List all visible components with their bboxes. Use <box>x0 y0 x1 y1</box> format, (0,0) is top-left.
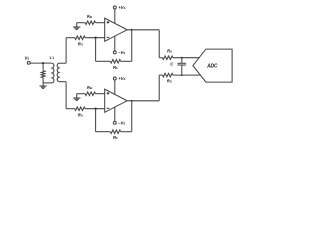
ground input <box>40 86 47 88</box>
node -in U1 <box>94 37 96 39</box>
svg-text:VS: VS <box>25 55 30 60</box>
input terminal VS <box>27 61 30 64</box>
resistor RB U2 <box>85 92 95 96</box>
+Vs stub U1 <box>113 6 116 23</box>
svg-text:RF: RF <box>113 65 118 70</box>
resistor RT shunt <box>41 63 45 86</box>
svg-text:−VS: −VS <box>118 120 125 125</box>
op-amp U1 <box>105 18 127 41</box>
label VS <box>25 55 30 60</box>
capacitor C <box>177 58 186 75</box>
label +Vs U1 <box>118 5 125 10</box>
resistor RG U2 <box>75 107 85 111</box>
wire secondary top to U1 inverting input <box>59 38 75 64</box>
wire RS bottom to ADC <box>173 74 200 76</box>
svg-text:RG: RG <box>78 113 84 118</box>
label ADC <box>206 64 218 70</box>
-Vs stub U1 <box>113 36 116 54</box>
label C <box>170 61 174 66</box>
label RS bottom <box>167 78 172 83</box>
label RB U1 <box>87 14 92 19</box>
label 1:1 <box>49 56 54 60</box>
wire RF to output U2 <box>121 101 132 132</box>
wire secondary bottom to U2 inverting input <box>59 82 75 109</box>
node cap top <box>181 57 183 59</box>
svg-text:RG: RG <box>78 42 84 47</box>
svg-text:+VS: +VS <box>118 76 125 81</box>
svg-text:RB: RB <box>87 14 92 19</box>
svg-text:RS: RS <box>167 78 172 83</box>
label -Vs U1 <box>118 50 125 55</box>
label RF U2 <box>113 135 118 140</box>
svg-text:RB: RB <box>87 85 92 90</box>
wire RB to +in U1 <box>96 22 105 24</box>
wire ground to RB U2 <box>77 93 85 95</box>
op-amp U2 <box>105 89 127 112</box>
ground U2 noninverting <box>73 94 81 101</box>
node output U1 <box>131 29 133 31</box>
node -in U2 <box>94 108 96 110</box>
ground U1 noninverting <box>73 23 81 30</box>
wire U1 output to RS top <box>127 30 162 58</box>
node output U2 <box>131 100 133 102</box>
resistor RS top <box>163 56 173 60</box>
label -Vs U2 <box>118 120 125 125</box>
transformer T1 secondary winding <box>57 63 59 81</box>
node input shunt tap <box>42 62 44 64</box>
label RS top <box>167 48 172 53</box>
resistor RB U1 <box>85 21 95 25</box>
svg-text:C: C <box>170 61 174 66</box>
transformer T1 primary winding <box>52 63 54 83</box>
svg-text:RF: RF <box>113 135 118 140</box>
-Vs stub U2 <box>113 107 116 124</box>
wire RB to +in U2 <box>96 93 105 95</box>
svg-text:+VS: +VS <box>118 5 125 10</box>
resistor RS bottom <box>163 73 173 77</box>
svg-text:RS: RS <box>167 48 172 53</box>
+Vs stub U2 <box>113 77 116 94</box>
wire input to transformer primary <box>30 62 52 64</box>
wire ground to RB U1 <box>77 22 85 24</box>
ADC block <box>193 49 232 82</box>
resistor RG U1 <box>75 36 85 40</box>
label RB U2 <box>87 85 92 90</box>
node cap bottom <box>181 74 183 76</box>
svg-text:1:1: 1:1 <box>49 56 54 60</box>
label +Vs U2 <box>118 76 125 81</box>
wire RS top to ADC <box>173 57 199 59</box>
label RF U1 <box>113 65 118 70</box>
wire RF to output U1 <box>121 30 132 62</box>
wire -in to RF U1 <box>96 38 111 62</box>
resistor RF U1 <box>110 60 120 64</box>
wire -in to RF U2 <box>96 109 111 132</box>
wire RG to -in U1 <box>85 37 105 39</box>
wire RG to -in U2 <box>85 108 105 110</box>
resistor RF U2 <box>110 130 120 134</box>
svg-text:ADC: ADC <box>206 64 218 70</box>
svg-text:−VS: −VS <box>118 50 125 55</box>
label RG U2 <box>78 113 84 118</box>
label RG U1 <box>78 42 84 47</box>
wire U2 output to RS bottom <box>127 75 162 101</box>
wire primary bottom to ground <box>43 82 52 84</box>
